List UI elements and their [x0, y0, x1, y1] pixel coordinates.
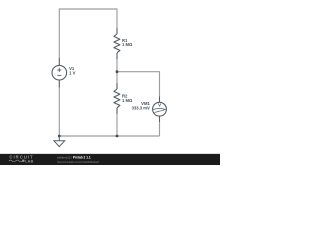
resistor R2	[114, 83, 120, 114]
node junction ground	[58, 135, 61, 138]
svg-text:1 MΩ: 1 MΩ	[122, 42, 133, 47]
wire top run: V1 top to R1 top	[59, 9, 117, 58]
svg-text:http://circuitlab.com/c/7ab3b0: http://circuitlab.com/c/7ab3b05a2a47	[57, 160, 100, 164]
ground	[54, 136, 65, 147]
voltmeter VM1	[153, 97, 167, 123]
resistor R1	[114, 28, 120, 59]
svg-text:LAB: LAB	[25, 159, 33, 163]
svg-text:V: V	[158, 102, 161, 107]
svg-text:1 MΩ: 1 MΩ	[122, 98, 133, 103]
wire R1 bottom to R2 top	[116, 59, 118, 83]
wire VM1 bottom to bottom rail	[159, 122, 161, 136]
svg-text:ebbkers12 / Prelab 2 1.1: ebbkers12 / Prelab 2 1.1	[57, 156, 91, 160]
node junction R2 bottom rail	[116, 135, 119, 138]
footer watermark bar	[0, 154, 220, 165]
svg-text:333.3 mV: 333.3 mV	[132, 105, 150, 110]
wire node junction to VM1 top	[117, 72, 160, 97]
node junction R1/R2/VM1	[116, 70, 119, 73]
voltage source V1	[52, 58, 67, 88]
svg-text:1 V: 1 V	[69, 70, 75, 75]
wire V1 bottom to ground node	[58, 88, 60, 137]
wire bottom rail	[59, 135, 159, 137]
wire R2 bottom to bottom rail	[116, 114, 118, 136]
CircuitLab logo	[9, 155, 34, 164]
